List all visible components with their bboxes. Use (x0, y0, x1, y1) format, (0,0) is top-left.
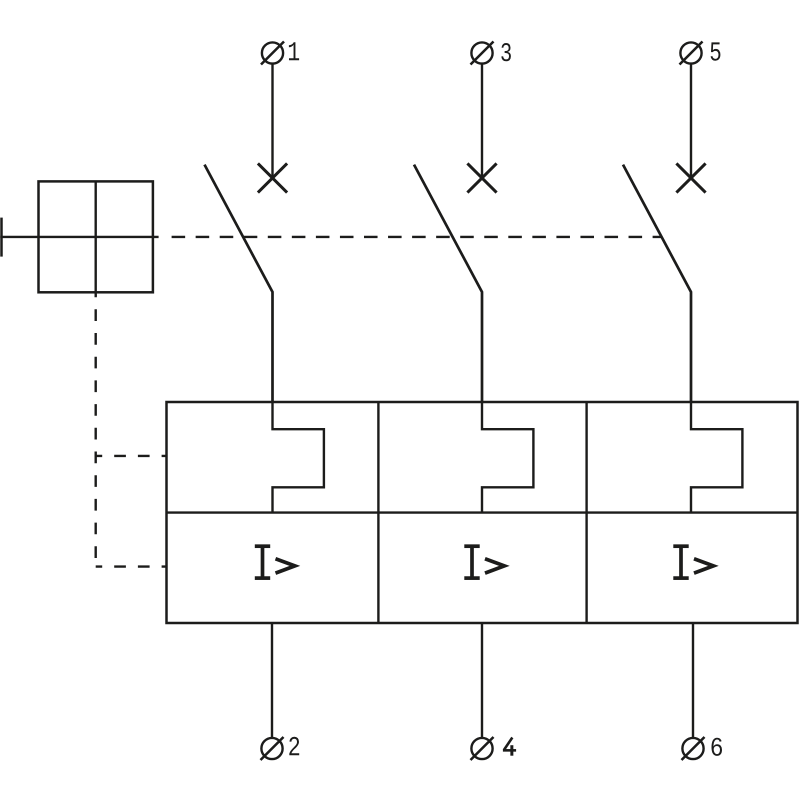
terminal label 4 (503, 738, 516, 756)
mechanical link dashed horizontal (172, 236, 661, 238)
handle tick (0, 218, 3, 257)
trip linkage dashed branch lower (96, 565, 167, 567)
trip linkage dashed branch upper (96, 455, 167, 457)
terminal 3 circle (471, 42, 492, 63)
block row divider (167, 511, 798, 513)
terminal 2 slash (261, 737, 284, 760)
trip linkage dashed vertical (94, 295, 96, 567)
fixed contact X pole 3 (676, 163, 705, 192)
terminal label 3 (501, 43, 511, 61)
fixed contact X pole 1 (258, 163, 287, 192)
terminal 1 slash (261, 42, 284, 65)
breaker contact blade pole 1 (205, 165, 273, 402)
block column divider 1 (377, 402, 379, 623)
overload relay block F1 outline (167, 402, 798, 623)
breaker contact blade pole 2 (414, 165, 482, 402)
wire block to terminal 4 (481, 623, 483, 738)
operator square vertical divider (94, 181, 96, 295)
terminal 6 slash (682, 737, 705, 760)
overcurrent symbol I> pole 1 (255, 546, 295, 578)
fixed contact X pole 2 (467, 163, 496, 192)
thermal overload element pole 3 (691, 402, 742, 513)
terminal 4 circle (471, 738, 492, 759)
terminal 1 circle (262, 42, 283, 63)
wire terminal 1 to contact (271, 64, 273, 178)
wire terminal 5 to contact (690, 64, 692, 178)
wire block to terminal 6 (692, 623, 694, 738)
terminal label 5 (711, 42, 721, 60)
terminal 4 slash (471, 737, 494, 760)
block column divider 2 (585, 402, 587, 623)
terminal 5 slash (680, 42, 703, 65)
terminal 2 circle (261, 738, 282, 759)
wire block to terminal 2 (271, 623, 273, 738)
terminal label 1 (289, 42, 299, 60)
breaker contact blade pole 3 (623, 165, 691, 402)
overcurrent symbol I> pole 3 (673, 546, 713, 578)
thermal overload element pole 1 (273, 402, 324, 513)
wire operator shaft horizontal (0, 236, 158, 238)
manual operator square S1 (39, 181, 153, 292)
terminal 5 circle (680, 42, 701, 63)
thermal overload element pole 2 (482, 402, 533, 513)
terminal label 6 (712, 738, 723, 756)
overcurrent symbol I> pole 2 (464, 546, 504, 578)
terminal label 2 (289, 737, 299, 755)
wire terminal 3 to contact (481, 64, 483, 178)
terminal 3 slash (471, 42, 494, 65)
terminal 6 circle (682, 738, 703, 759)
